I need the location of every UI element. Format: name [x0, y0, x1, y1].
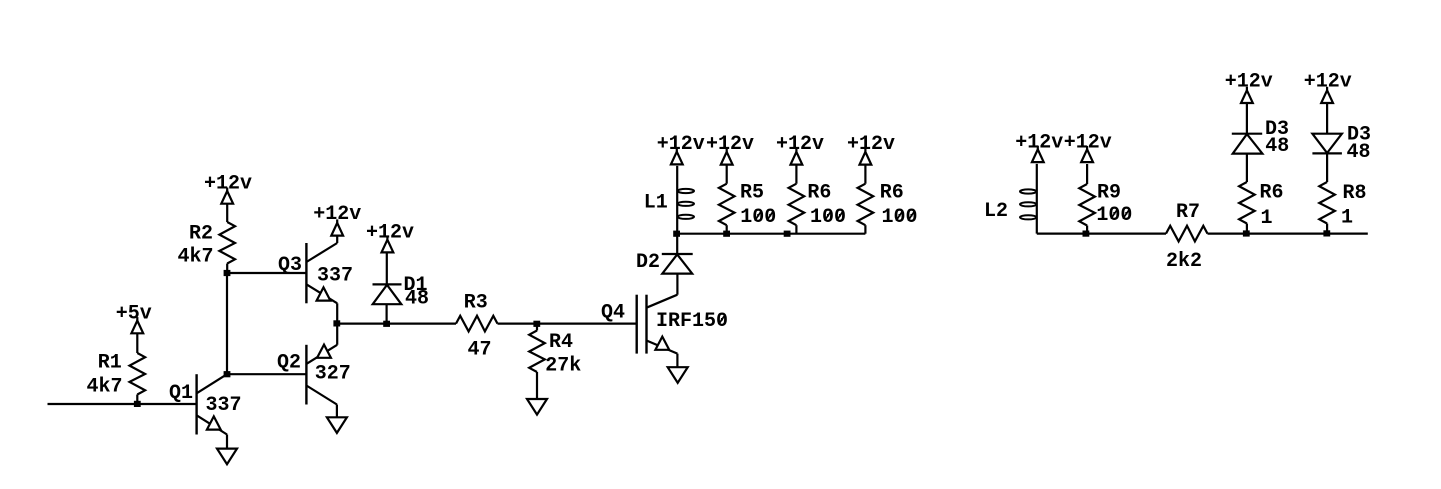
- transistor Q4 body: [637, 295, 678, 354]
- label +12v at first D3: [1225, 70, 1273, 93]
- svg-text:R6: R6: [1259, 182, 1283, 205]
- wire R2 junction to Q3 base: [227, 272, 306, 274]
- emitter arrow Q3: [317, 287, 331, 300]
- svg-text:+12v: +12v: [1015, 132, 1063, 155]
- power +12v symbol at second D3: [1321, 87, 1333, 103]
- svg-text:+12v: +12v: [204, 173, 252, 196]
- ground at Q1 emitter: [217, 449, 237, 465]
- svg-text:R4: R4: [549, 331, 573, 354]
- label R4: [549, 331, 573, 354]
- diode D1: [373, 253, 402, 323]
- wire Q2 collector to ground: [336, 405, 338, 418]
- resistor R3: [456, 316, 498, 332]
- label +12v at R2: [204, 173, 252, 196]
- wire +12v rail left section: [677, 233, 866, 235]
- value Q4 IRF150: [656, 310, 728, 333]
- power +12v symbol at first D3: [1241, 87, 1253, 103]
- value R4 27k: [545, 355, 581, 378]
- power +12v symbol at L1: [671, 148, 683, 164]
- label L2: [984, 200, 1008, 223]
- svg-text:47: 47: [467, 339, 491, 362]
- resistor R6 second: [858, 165, 874, 234]
- svg-text:R6: R6: [880, 182, 904, 205]
- value R1 4k7: [86, 376, 122, 399]
- svg-text:48: 48: [1265, 135, 1289, 158]
- svg-text:+5v: +5v: [116, 302, 152, 325]
- svg-text:48: 48: [1346, 141, 1370, 164]
- label +12v at D1: [366, 222, 414, 245]
- svg-text:337: 337: [205, 394, 241, 417]
- emitter arrow Q2: [317, 345, 331, 358]
- power +12v symbol at R2: [221, 188, 233, 223]
- label R2: [189, 223, 213, 246]
- svg-text:Q4: Q4: [601, 301, 625, 324]
- node R4 junction: [533, 321, 540, 327]
- resistor R1: [130, 353, 146, 404]
- wire +12v rail right section left of R7: [1037, 233, 1166, 235]
- transistor Q3 body: [306, 243, 337, 303]
- value R6 first 100: [810, 206, 846, 229]
- svg-text:R5: R5: [740, 182, 764, 205]
- svg-text:100: 100: [881, 206, 917, 229]
- resistor R7: [1166, 226, 1208, 242]
- node input junction: [134, 401, 141, 407]
- node R2-Q3 base junction: [224, 270, 231, 276]
- value D3 second 48: [1346, 141, 1370, 164]
- power +12v symbol at R6 second: [860, 148, 872, 164]
- label R5: [740, 182, 764, 205]
- svg-text:+12v: +12v: [366, 222, 414, 245]
- source arrow Q4: [655, 337, 669, 350]
- label D3 first: [1265, 118, 1289, 141]
- svg-text:L1: L1: [644, 192, 668, 215]
- label +12v at Q3: [313, 203, 361, 226]
- label +5v: [116, 302, 152, 325]
- label R8: [1342, 182, 1366, 205]
- svg-text:+12v: +12v: [657, 133, 705, 156]
- label R7: [1176, 201, 1200, 224]
- label +12v at second D3: [1304, 70, 1352, 93]
- value D3 first 48: [1265, 135, 1289, 158]
- wire emitter node to D1 node: [337, 323, 386, 325]
- node rail junction near R6: [784, 231, 791, 237]
- node D1 anode junction: [383, 321, 390, 327]
- node first D3 rail junction: [1243, 230, 1250, 236]
- svg-text:+12v: +12v: [706, 133, 754, 156]
- svg-text:+12v: +12v: [1064, 132, 1112, 155]
- wire R2 junction down to Q1 collector node: [226, 273, 228, 374]
- wire Q1 emitter to ground: [226, 435, 228, 449]
- value D1 48: [405, 287, 429, 310]
- resistor R9: [1079, 164, 1095, 234]
- svg-text:R6: R6: [807, 182, 831, 205]
- svg-text:R1: R1: [98, 352, 122, 375]
- label D3 second: [1347, 124, 1371, 147]
- svg-text:R2: R2: [189, 223, 213, 246]
- value Q1 337: [205, 394, 241, 417]
- value R6 third 1: [1260, 207, 1272, 230]
- svg-text:+12v: +12v: [847, 133, 895, 156]
- wire input net to Q1 base: [48, 403, 197, 405]
- label +12v at L1: [657, 133, 705, 156]
- wire Q3 collector up: [336, 236, 338, 243]
- inductor L2: [1020, 164, 1037, 234]
- svg-text:327: 327: [315, 362, 351, 385]
- svg-text:100: 100: [810, 206, 846, 229]
- transistor Q2 body: [306, 345, 337, 405]
- transistor Q1 body: [197, 374, 227, 434]
- svg-text:337: 337: [317, 265, 353, 288]
- svg-text:+12v: +12v: [1225, 70, 1273, 93]
- node Q3-Q2 emitter junction: [333, 320, 340, 326]
- label R6 second: [880, 182, 904, 205]
- svg-text:Q3: Q3: [278, 254, 302, 277]
- label R1: [98, 352, 122, 375]
- svg-text:27k: 27k: [545, 355, 581, 378]
- label D1: [403, 274, 427, 297]
- diode D2: [662, 234, 693, 274]
- node R5 rail junction: [723, 231, 730, 237]
- node Q1 collector junction: [224, 371, 231, 377]
- wire +12v rail right section right of R7: [1208, 233, 1368, 235]
- resistor R6 first: [789, 165, 805, 234]
- label +12v at L2: [1015, 132, 1063, 155]
- svg-text:100: 100: [1096, 204, 1132, 227]
- emitter arrow Q1: [207, 416, 221, 429]
- power +12v symbol at D1: [382, 236, 394, 252]
- node R8 rail junction: [1323, 230, 1330, 236]
- wire D1 node to R3: [387, 323, 456, 325]
- svg-text:R8: R8: [1342, 182, 1366, 205]
- label L1: [644, 192, 668, 215]
- resistor R6 third: [1239, 182, 1255, 234]
- svg-text:IRF150: IRF150: [656, 310, 728, 333]
- value R9 100: [1096, 204, 1132, 227]
- svg-text:D2: D2: [636, 251, 660, 274]
- value R3 47: [467, 339, 491, 362]
- power +12v symbol at R9: [1081, 146, 1093, 162]
- ground at R4: [527, 399, 547, 415]
- power +12v symbol at R5: [721, 148, 733, 164]
- wire Q4 drain up to D2: [676, 274, 678, 295]
- node R9 rail junction: [1083, 231, 1090, 237]
- svg-text:4k7: 4k7: [177, 246, 213, 269]
- value Q2 327: [315, 362, 351, 385]
- svg-text:1: 1: [1341, 207, 1353, 230]
- label R6 third: [1259, 182, 1283, 205]
- resistor R4: [529, 324, 545, 399]
- svg-text:R7: R7: [1176, 201, 1200, 224]
- svg-text:48: 48: [405, 287, 429, 310]
- svg-text:Q2: Q2: [277, 351, 301, 374]
- label R3: [464, 291, 488, 314]
- svg-text:+12v: +12v: [1304, 70, 1352, 93]
- label Q4: [601, 301, 625, 324]
- power +5v symbol: [131, 317, 143, 353]
- value R8 1: [1341, 207, 1353, 230]
- power +12v symbol at R6 first: [791, 148, 803, 164]
- label Q3: [278, 254, 302, 277]
- svg-text:L2: L2: [984, 200, 1008, 223]
- svg-text:2k2: 2k2: [1166, 250, 1202, 273]
- ground at Q2 collector: [327, 417, 347, 433]
- wire Q3 emitter to Q2 emitter node: [336, 303, 338, 345]
- value R2 4k7: [177, 246, 213, 269]
- label +12v at R5: [706, 133, 754, 156]
- diode D3 second: [1312, 103, 1342, 182]
- value R6 second 100: [881, 206, 917, 229]
- inductor L1: [677, 166, 694, 234]
- label +12v at R9: [1064, 132, 1112, 155]
- resistor R2: [219, 222, 235, 273]
- diode D3 first: [1232, 103, 1263, 182]
- svg-text:+12v: +12v: [776, 133, 824, 156]
- label D2: [636, 251, 660, 274]
- ground at Q4 source: [668, 367, 688, 383]
- svg-text:R9: R9: [1097, 182, 1121, 205]
- label Q2: [277, 351, 301, 374]
- label R9: [1097, 182, 1121, 205]
- wire R3 to R4 node: [498, 323, 537, 325]
- svg-text:4k7: 4k7: [86, 376, 122, 399]
- label R6 first: [807, 182, 831, 205]
- svg-text:1: 1: [1260, 207, 1272, 230]
- wire Q1 collector node to Q2 base: [227, 373, 306, 375]
- svg-text:+12v: +12v: [313, 203, 361, 226]
- label Q1: [169, 382, 193, 405]
- label +12v at R6 second: [847, 133, 895, 156]
- node L1-D2 rail junction: [673, 231, 680, 237]
- svg-text:100: 100: [740, 206, 776, 229]
- wire Q4 source to ground: [676, 354, 678, 368]
- value R7 2k2: [1166, 250, 1202, 273]
- resistor R8: [1319, 182, 1335, 234]
- resistor R5: [719, 165, 735, 234]
- wire R4 node to Q4 gate: [537, 323, 637, 325]
- svg-text:Q1: Q1: [169, 382, 193, 405]
- power +12v symbol at L2: [1032, 146, 1044, 162]
- svg-text:R3: R3: [464, 291, 488, 314]
- power +12v symbol at Q3 collector: [331, 219, 343, 235]
- value Q3 337: [317, 265, 353, 288]
- value R5 100: [740, 206, 776, 229]
- label +12v at R6 first: [776, 133, 824, 156]
